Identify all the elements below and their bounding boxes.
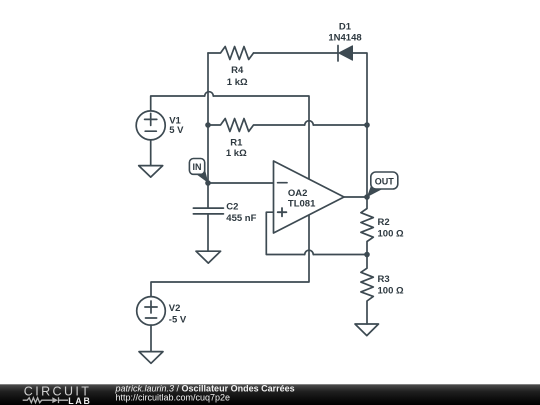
V2 minus sign: [146, 317, 157, 319]
resistor R1 body and wire to right vertical with hop: [208, 119, 367, 132]
voltage source V1 circle: [136, 111, 165, 140]
wire IN node to op-amp inverting input: [208, 182, 274, 184]
junction dot IN node: [205, 180, 211, 186]
svg-text:100 Ω: 100 Ω: [378, 228, 404, 239]
svg-text:R3: R3: [378, 274, 390, 285]
junction dot OUT node: [364, 194, 370, 200]
svg-text:C2: C2: [226, 202, 238, 213]
wire C2 bottom to ground: [207, 214, 209, 251]
junction dot R1 left: [205, 122, 211, 128]
V1 minus sign: [145, 130, 156, 132]
svg-text:R2: R2: [378, 217, 390, 228]
wire V1 to ground: [150, 140, 152, 166]
wire hop on R1 wire: [305, 121, 314, 125]
wire hop on noninverting input wire: [305, 250, 314, 254]
svg-text:OUT: OUT: [375, 177, 395, 187]
svg-text:OA2: OA2: [288, 188, 308, 199]
svg-text:1 kΩ: 1 kΩ: [227, 77, 248, 88]
resistor R2 body: [361, 197, 373, 254]
svg-text:-5 V: -5 V: [169, 314, 187, 325]
svg-text:1 kΩ: 1 kΩ: [226, 148, 247, 159]
svg-text:R4: R4: [231, 65, 244, 76]
junction dot R1 right: [364, 122, 370, 128]
IN flag box: [189, 159, 204, 175]
svg-text:455 nF: 455 nF: [226, 213, 256, 224]
OUT flag tail: [367, 185, 382, 198]
svg-text:D1: D1: [339, 22, 352, 33]
svg-text:IN: IN: [193, 162, 202, 172]
logo diode triangle: [52, 397, 58, 403]
diode D1 triangle: [339, 46, 353, 60]
resistor R4 body: [208, 47, 254, 60]
diode D1 cathode bar: [337, 46, 339, 62]
OUT flag box: [371, 172, 398, 189]
logo resistor-diode symbol: [23, 397, 68, 403]
svg-text:TL081: TL081: [288, 199, 316, 210]
junction dot R2/R3 node: [364, 252, 370, 258]
ground below R3: [355, 324, 379, 336]
svg-text:LAB: LAB: [68, 396, 91, 405]
V1 plus sign: [145, 113, 157, 125]
wire D1 to right vertical, down to OUT node: [353, 53, 368, 197]
svg-text:R1: R1: [230, 137, 243, 148]
V2 plus sign: [145, 301, 157, 313]
wire top rail R4 to D1: [254, 52, 339, 54]
svg-text:http://circuitlab.com/cuq7p2e: http://circuitlab.com/cuq7p2e: [116, 392, 231, 402]
capacitor C2 plates: [193, 208, 223, 214]
svg-text:V2: V2: [169, 303, 181, 314]
op-amp plus input sign: [278, 208, 287, 216]
wire op-amp output to OUT node: [344, 196, 367, 198]
wire op-amp noninverting input down and right to R2/R3 node with hop: [266, 212, 367, 254]
wire op-amp V- pin down to negative rail to V2: [151, 215, 309, 297]
resistor R3 body: [361, 254, 373, 324]
ground below V2: [139, 352, 163, 364]
wire left vertical x=208 from R4 down to C2: [207, 53, 209, 208]
ground below C2: [196, 251, 221, 263]
svg-text:5 V: 5 V: [169, 125, 184, 136]
op-amp minus input sign: [278, 182, 287, 184]
wire V2 to ground: [150, 325, 152, 352]
op-amp OA2 triangle: [274, 161, 345, 233]
svg-text:100 Ω: 100 Ω: [378, 286, 404, 297]
IN flag tail: [196, 169, 208, 184]
ground below V1: [139, 166, 163, 178]
svg-text:1N4148: 1N4148: [328, 32, 361, 43]
wire hop on V1 rail: [205, 92, 214, 96]
wire V1 positive rail with hop over x=208, down to op-amp V+ pin: [151, 96, 309, 179]
voltage source V2 circle: [137, 297, 166, 326]
